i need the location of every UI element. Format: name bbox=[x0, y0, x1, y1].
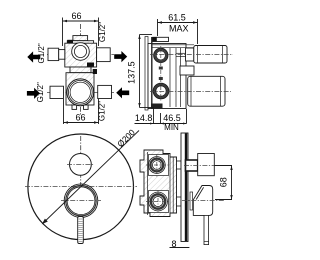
lever pointing down bbox=[78, 217, 84, 244]
svg-text:G1/2": G1/2" bbox=[98, 22, 107, 42]
centerline vertical view3 bbox=[80, 136, 82, 231]
lower port boss ring bbox=[154, 84, 167, 97]
upper boss ring side bbox=[150, 159, 163, 172]
valve body side bbox=[148, 44, 186, 109]
svg-text:G1/2": G1/2" bbox=[37, 43, 46, 63]
svg-text:G1/2": G1/2" bbox=[36, 82, 45, 102]
upper white pocket bbox=[149, 155, 169, 176]
plate front dark edge bbox=[185, 134, 187, 242]
centerline knob view4 bbox=[184, 165, 228, 167]
escutcheon circle D200 bbox=[28, 134, 134, 240]
svg-text:8: 8 bbox=[171, 239, 176, 249]
VIEW 4: side view with trim installed bbox=[140, 133, 214, 245]
black mark 2 bbox=[93, 69, 97, 74]
dimension 66 top bbox=[63, 18, 99, 47]
dimension 68 bbox=[214, 166, 232, 200]
svg-text:G1/2": G1/2" bbox=[97, 101, 106, 121]
centerline lower ports view1 bbox=[47, 92, 114, 94]
centerline view4 upper boss bbox=[156, 154, 158, 177]
body inner verticals bbox=[147, 152, 149, 215]
svg-text:46.5: 46.5 bbox=[163, 113, 181, 123]
knob crosshair bbox=[67, 164, 94, 166]
upper stem dash bbox=[176, 52, 186, 54]
svg-text:137.5: 137.5 bbox=[127, 61, 137, 84]
centerline lever view4 bbox=[182, 200, 224, 202]
link marks between bosses bbox=[159, 67, 163, 70]
lever body bbox=[193, 186, 212, 216]
lower-right port bbox=[98, 85, 112, 98]
leader arrowhead lower-left bbox=[42, 219, 48, 225]
wall surface thick line bbox=[151, 37, 153, 109]
flow arrow top-right (outlet) bbox=[114, 51, 127, 62]
centerline vertical view1 bbox=[80, 24, 82, 116]
wall mounting plate bbox=[145, 37, 148, 111]
lower white pocket bbox=[149, 191, 169, 213]
step to upper stem bbox=[186, 48, 194, 61]
centerline horizontal view3 bbox=[25, 186, 137, 188]
centerline view4 lower boss bbox=[157, 190, 159, 213]
flow arrow bottom-right (inlet) bbox=[116, 87, 129, 98]
body mid neck bbox=[70, 67, 91, 73]
valve upper shoulder bbox=[67, 41, 93, 45]
flow arrow top-left (outlet) bbox=[27, 51, 40, 62]
upper protection cylinder bbox=[194, 46, 227, 64]
svg-text:MIN: MIN bbox=[164, 123, 179, 132]
dimension 137.5 bbox=[140, 35, 155, 108]
upper cartridge circle bbox=[72, 43, 90, 61]
diverter knob side bbox=[198, 154, 215, 176]
rough-in body side bbox=[140, 150, 177, 217]
centerline upper ports view1 bbox=[47, 54, 114, 56]
cartridge stem lower bbox=[177, 197, 182, 206]
top shelf lines bbox=[152, 44, 194, 46]
centerline lower cylinder bbox=[150, 91, 231, 93]
svg-text:61.5: 61.5 bbox=[168, 13, 186, 23]
diameter leader line bbox=[43, 131, 139, 224]
lever bevel line bbox=[196, 187, 203, 199]
knob stem bbox=[186, 160, 198, 171]
centerline through view2 bosses vertical bbox=[160, 46, 162, 101]
mixer cartridge circle bbox=[67, 79, 94, 106]
body bottom foot bbox=[151, 104, 163, 109]
VIEW 2: side view of rough-in valve bbox=[145, 37, 227, 111]
bracket under upper stem bbox=[180, 66, 194, 75]
mounting tab right bbox=[84, 105, 89, 109]
lower boss ring side bbox=[151, 194, 165, 208]
VIEW 1: front view of rough-in valve body bbox=[47, 24, 114, 116]
svg-text:MAX: MAX bbox=[169, 23, 189, 33]
lever rod down bbox=[204, 215, 209, 244]
body top cap side bbox=[153, 37, 169, 41]
escutcheon plate side bbox=[181, 133, 188, 242]
svg-text:66: 66 bbox=[71, 11, 81, 21]
upper-right port bbox=[97, 48, 111, 62]
lower-left port bbox=[50, 86, 64, 98]
handle collar bbox=[190, 192, 193, 210]
upper body block bbox=[65, 43, 97, 67]
upper-left port neck bbox=[59, 50, 65, 60]
ring crosshair bbox=[61, 200, 101, 202]
valve top cap bbox=[73, 36, 88, 41]
upper port boss ring bbox=[155, 49, 167, 61]
handle ring bbox=[66, 186, 96, 216]
cap black detail bbox=[153, 38, 157, 42]
lower body block bbox=[66, 73, 94, 105]
lower cylinder collar bbox=[190, 76, 192, 106]
dimension 8 bbox=[170, 247, 190, 249]
svg-text:68: 68 bbox=[219, 177, 229, 187]
mounting tab left bbox=[72, 105, 77, 109]
dimension 66 bottom bbox=[64, 99, 99, 124]
cartridge stem upper bbox=[177, 161, 182, 169]
svg-text:14.8: 14.8 bbox=[135, 113, 153, 123]
upper-left port bbox=[48, 48, 59, 60]
internal verticals bbox=[169, 48, 171, 107]
lower protection cylinder bbox=[188, 76, 225, 106]
black mark 1 bbox=[87, 63, 94, 67]
centerline upper cylinder bbox=[150, 54, 233, 56]
dimension 14.8 / 46.5 MIN bbox=[135, 108, 187, 124]
flow arrow bottom-left (inlet) bbox=[27, 88, 40, 99]
dimension 61.5 MAX bbox=[158, 19, 198, 44]
diverter knob circle bbox=[70, 154, 92, 176]
black corner wedge bbox=[67, 40, 73, 45]
svg-text:66: 66 bbox=[75, 113, 85, 123]
upper cylinder collar bbox=[197, 46, 199, 64]
